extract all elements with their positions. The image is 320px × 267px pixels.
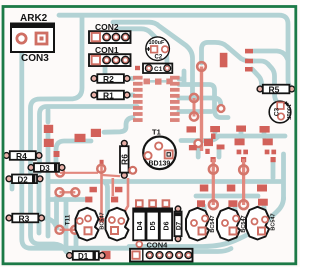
node pad row below C1 (144, 79, 151, 85)
wire band y136 right (181, 136, 285, 141)
transistor T1 BD139 (143, 128, 176, 170)
svg-text:BC547: BC547 (100, 212, 106, 229)
connector CON2 (89, 22, 131, 43)
diode D5 vertical (147, 200, 159, 240)
resistor R4 (4, 151, 42, 161)
wire branch down x107.5 (103, 182, 108, 222)
resistor R5 (257, 85, 295, 95)
wire top t2 diagonal to C1 right pad (118, 29, 167, 62)
wire stubs rowF to transistors (202, 206, 207, 214)
node pad row A (187, 126, 197, 132)
svg-text:T11: T11 (65, 214, 72, 225)
svg-text:ARK2: ARK2 (20, 13, 48, 24)
wire h3 to pad (48, 197, 84, 202)
node via ring x194 top (190, 94, 198, 102)
node pad tiny left of C1 (135, 66, 140, 70)
wire red vertical main (200, 67, 203, 152)
node via ring B top (239, 165, 248, 174)
wire top outer t0 (59, 15, 291, 87)
wire CON2 branch to mid-left vertical (31, 17, 83, 252)
svg-text:R4: R4 (16, 151, 27, 161)
wire red vertical B (242, 159, 245, 205)
svg-text:BD139: BD139 (149, 160, 171, 167)
wire vertical x48 through pads (46, 131, 51, 236)
node bar pad 2 (245, 59, 253, 64)
capacitor C3 (269, 101, 291, 123)
node pad row F (197, 200, 205, 207)
node bar pad 1 (245, 49, 253, 54)
node via ring right of R6 (129, 167, 136, 174)
svg-text:CON3: CON3 (21, 53, 49, 64)
node via ring top of red vertical (197, 62, 206, 71)
wire vertical x59 (54, 198, 59, 227)
node pad small x101.5 top (100, 160, 104, 164)
transistor Q5 BC547 (246, 207, 269, 240)
wire CON3 left long vertical (22, 42, 129, 248)
wire band y181 full (48, 179, 281, 184)
wire red link pair A2 (60, 191, 76, 193)
wire bar3 diagonal to R5 left (252, 69, 262, 84)
svg-text:C1: C1 (154, 66, 163, 73)
node pad column left of T1 (44, 125, 53, 133)
wire red link pair C and to R6 (60, 173, 120, 176)
diode D4 vertical (133, 200, 145, 247)
wire stub CON1 down (103, 61, 108, 73)
wire bottom right curve (129, 198, 284, 247)
resistor R2 (91, 74, 130, 84)
svg-text:100uF: 100uF (285, 104, 291, 121)
svg-text:T1: T1 (152, 128, 161, 137)
transistor Q4 BC547 (217, 208, 240, 241)
wire top t1 diagonal to via x194 (113, 22, 193, 94)
diode D7 vertical narrow (174, 206, 182, 242)
node smd bar column left (133, 76, 143, 122)
wire band y196 (196, 194, 258, 199)
node via ring B bottom (239, 200, 248, 209)
node via ring x221 (218, 105, 225, 112)
wire stub D2 right down (37, 183, 42, 233)
diode D1 (67, 251, 105, 261)
capacitor C1 (143, 64, 172, 74)
wire red vertical x101.5 (100, 161, 103, 218)
wire L2 inner horizontal to D2 pad (40, 107, 138, 173)
wire stubs rowA (213, 132, 218, 137)
wire red vertical x127 (123, 178, 128, 214)
node pad small near R4 (54, 151, 60, 157)
wire red vertical x112.8 (112, 178, 115, 196)
svg-text:100uF: 100uF (149, 40, 166, 46)
node via ring A top (209, 165, 218, 174)
wire stub R1 to bar column (128, 93, 133, 98)
wire h2 mid left (56, 141, 91, 168)
transistor Q3 BC547 (186, 208, 209, 241)
node pad row B big (235, 139, 245, 146)
svg-text:D5: D5 (150, 221, 157, 230)
transistor Q mid 1 (76, 208, 99, 241)
wire red vertical short x194 (193, 98, 196, 117)
node pad row E (200, 185, 209, 192)
svg-text:R2: R2 (103, 74, 114, 84)
svg-text:R6: R6 (119, 154, 129, 165)
wire bar column left bottom curve (104, 118, 133, 133)
wire stub x273 down (271, 161, 276, 178)
svg-text:CON2: CON2 (95, 22, 119, 32)
connector CON1 (89, 45, 131, 66)
node via ring pair B2 (56, 226, 64, 234)
svg-text:BC547: BC547 (210, 215, 216, 232)
wire red link pair B2 (60, 229, 76, 231)
node bar pad 3 (245, 67, 253, 72)
wire ring pair B2 down (74, 234, 79, 248)
node pad rows above mid transistors (90, 187, 97, 193)
wire CON5 right stub (194, 249, 231, 252)
node via ring x194 bottom (190, 112, 198, 120)
node pad row B small squares (237, 150, 242, 155)
node via ring A bottom (209, 200, 218, 209)
capacitor C2 100uF (146, 37, 170, 61)
node pad small x101.5 bottom (99, 218, 104, 223)
node via ring x101.5 (97, 165, 105, 173)
resistor R6 vertical (119, 140, 136, 178)
svg-text:D4: D4 (137, 221, 144, 230)
node smd pad big rect (220, 53, 228, 68)
wire stub R2 to bar column (128, 76, 133, 81)
svg-text:R1: R1 (103, 91, 114, 101)
node smd bar column right (170, 76, 180, 122)
node pad row C (189, 145, 197, 150)
diode D2 (6, 175, 43, 185)
svg-text:CON1: CON1 (95, 45, 119, 55)
svg-text:R3: R3 (19, 214, 30, 224)
transistor Q mid 2 (106, 208, 129, 241)
wire bar2 to C3 plus pad (254, 61, 278, 103)
svg-text:D1: D1 (78, 252, 89, 261)
svg-text:BC547: BC547 (271, 213, 277, 230)
wire bar1 to right vertical (254, 51, 288, 60)
connector CON5 bottom strip (130, 249, 193, 262)
connector ARK2/CON3 (11, 13, 54, 64)
wire right vertical x283.5 (281, 154, 286, 199)
svg-text:D6: D6 (163, 221, 170, 230)
wire stub below D2 left (10, 183, 15, 189)
node pad row D small squares (211, 157, 216, 162)
wire links below C1 (150, 80, 167, 83)
svg-text:D7: D7 (175, 221, 182, 230)
wire hook ring to bar2 (202, 42, 255, 63)
svg-text:R5: R5 (269, 85, 280, 95)
svg-text:C2: C2 (155, 54, 163, 60)
diode D6 vertical (160, 200, 172, 240)
wire stub red pad up (46, 110, 51, 122)
resistor R3 (6, 214, 44, 224)
wire R3 to rings (44, 218, 57, 228)
svg-text:D3: D3 (40, 164, 51, 173)
svg-text:D2: D2 (18, 175, 29, 184)
resistor R1 (91, 91, 130, 101)
wire red vertical A (212, 159, 215, 205)
wire stubs bar column right (179, 77, 184, 82)
node pad cluster near T1 right (195, 140, 202, 147)
node pad D1 right (102, 251, 111, 259)
node via ring pair A2 (56, 188, 64, 196)
red copper layer (44, 49, 276, 259)
svg-text:C3: C3 (274, 107, 281, 116)
diode D3 (28, 163, 65, 173)
node via ring pair C (56, 169, 64, 177)
